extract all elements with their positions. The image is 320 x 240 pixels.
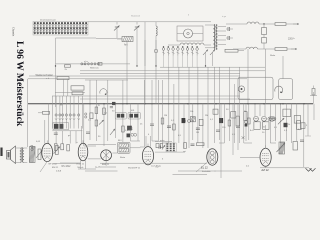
potentiometer P4: [55, 146, 58, 155]
resistor R2: [263, 24, 265, 28]
wire: [126, 40, 128, 104]
wire: [244, 142, 252, 144]
resistor R17: [263, 122, 269, 130]
wire: [259, 23, 275, 25]
wire: [144, 40, 146, 104]
resistor R6: [65, 65, 71, 67]
svg-text:Misch.: Misch.: [78, 167, 85, 169]
resistor R32: [54, 144, 57, 151]
wire: [173, 104, 175, 150]
wire: [259, 104, 261, 116]
wire: [239, 104, 241, 143]
wire: [279, 104, 281, 143]
wire: [80, 126, 82, 144]
wire: [168, 104, 170, 143]
wire: [264, 104, 266, 116]
capacitor C9 (padder): [129, 114, 133, 118]
wire: [307, 130, 309, 136]
resistor R10: [122, 126, 125, 132]
wire: [107, 80, 109, 104]
inductor L3 (oscillator coil): [180, 43, 204, 45]
wire: [228, 67, 230, 104]
resistor R28: [43, 111, 50, 114]
wire: [162, 104, 164, 143]
wire: [178, 67, 180, 104]
capacitor C17: [129, 127, 133, 129]
switch wafer S2: [162, 48, 165, 51]
tube V1 (EM11 tuning eye): [42, 143, 53, 161]
wire: [245, 104, 247, 141]
resistor R30: [72, 92, 83, 95]
tube V3 (EBF11): [101, 150, 112, 161]
resistor R20: [184, 143, 187, 149]
resistor R35: [236, 116, 239, 126]
resistor R5: [225, 49, 238, 52]
svg-text:EM 11: EM 11: [52, 167, 59, 169]
capacitor C14 (electrolytic): [270, 116, 275, 121]
wire: [265, 125, 267, 149]
wire: [233, 48, 246, 50]
pickup coil hook 2: [100, 89, 107, 95]
wire: [114, 104, 116, 138]
wire: [96, 38, 122, 40]
switch contact loops: [85, 113, 87, 115]
wire: [152, 140, 158, 142]
wire: [213, 67, 215, 104]
wire bus 8: [52, 95, 240, 97]
wire: [173, 174, 208, 176]
motor M2 (dial drive): [238, 86, 244, 92]
wire: [269, 104, 271, 143]
node junction: [103, 103, 104, 104]
switch S6 frame: [53, 123, 69, 130]
wire: [232, 104, 234, 155]
resistor R19: [294, 116, 300, 124]
capacitor C16: [86, 131, 90, 133]
wire: [151, 80, 153, 104]
svg-text:Drucktastensatz: Drucktastensatz: [40, 19, 56, 22]
capacitor C2 (trimmer): [136, 22, 138, 25]
wire: [88, 158, 101, 160]
inductor L6: [190, 117, 195, 122]
capacitor C1 (trimmer): [116, 22, 118, 25]
capacitor C29: [31, 145, 33, 147]
wire: [207, 67, 209, 104]
wire: [103, 104, 105, 146]
potentiometer P1: [99, 120, 104, 125]
svg-text:220V~: 220V~: [288, 38, 296, 41]
capacitor C5 (trimmer): [203, 50, 208, 56]
resistor R36: [244, 112, 247, 121]
transformer TR1 (mains): [214, 24, 216, 50]
wire bus 9: [80, 98, 250, 100]
capacitor C22: [300, 139, 304, 141]
capacitor C25: [110, 105, 113, 107]
inductor loop a: [183, 120, 186, 123]
wire bus 1: [56, 63, 131, 65]
resistor R26: [228, 120, 231, 126]
shield can 1: [238, 77, 273, 99]
wire: [0, 0, 320, 186]
resistor R15: [231, 112, 236, 118]
resistor R13: [213, 109, 218, 114]
svg-text:rg--01: rg--01: [95, 167, 101, 169]
wire: [155, 40, 157, 104]
wire: [173, 84, 175, 104]
wire: [89, 80, 91, 104]
tube V6 (AZ12 rectifier): [260, 148, 271, 166]
svg-text:0,3 A: 0,3 A: [56, 169, 62, 172]
wire: [265, 166, 267, 168]
wire: [163, 142, 169, 144]
wire: [239, 67, 241, 104]
inductor loop b: [188, 120, 191, 123]
wire: [62, 131, 64, 144]
svg-text:AZ 12: AZ 12: [261, 168, 269, 172]
capacitor C8 (padder): [117, 114, 120, 118]
wire: [178, 170, 242, 172]
wire: [107, 104, 109, 141]
wire: [140, 146, 144, 148]
node chassis mark: [0, 148, 2, 157]
resistor R22: [293, 142, 298, 151]
wire: [303, 104, 305, 167]
svg-text:Wid 05: Wid 05: [128, 168, 135, 170]
capacitor C11: [196, 127, 200, 129]
resistor R24: [161, 118, 164, 124]
svg-text:Skala: Skala: [270, 55, 276, 57]
wire: [48, 104, 50, 144]
capacitor C21: [54, 132, 58, 134]
capacitor C26 (on rail): [112, 102, 116, 105]
wire: [105, 161, 107, 166]
capacitor C33: [244, 120, 247, 123]
wire: [151, 104, 153, 141]
wire: [63, 79, 65, 96]
resistor R34: [67, 145, 70, 151]
wire: [188, 67, 190, 104]
svg-text:Chassis: Chassis: [12, 27, 16, 37]
capacitor C8b (padder): [121, 114, 125, 118]
wire: [247, 49, 249, 104]
wire: [234, 84, 236, 104]
capacitor C24 (dark): [59, 124, 63, 129]
svg-text:1M: 1M: [164, 115, 167, 117]
wire: [178, 104, 180, 143]
svg-text:NF 4312: NF 4312: [49, 164, 58, 166]
node junction: [136, 65, 137, 66]
wire: [144, 22, 146, 66]
wire: [95, 104, 97, 141]
wire: [84, 145, 96, 147]
inductor L5 (choke): [246, 47, 257, 49]
wire: [240, 156, 260, 158]
capacitor C15: [191, 143, 195, 145]
wire: [55, 79, 57, 107]
wire: [26, 79, 28, 147]
resistor R29: [71, 86, 84, 90]
capacitor C31: [272, 117, 276, 121]
resistor R4: [275, 48, 287, 51]
wire bus 6: [28, 78, 247, 80]
wire: [188, 104, 190, 148]
wire: [56, 37, 97, 39]
wire: [44, 120, 46, 144]
wire: [254, 104, 256, 116]
wire: [122, 80, 124, 104]
wire: [286, 104, 288, 141]
switch S4 box: [57, 77, 69, 80]
svg-text:Bf II: Bf II: [118, 140, 122, 142]
svg-text:Wellensch.: Wellensch.: [90, 67, 100, 69]
wire: [257, 48, 275, 50]
resistor R39: [156, 144, 159, 148]
wire: [88, 21, 211, 23]
transformer IFT3 (Bandfilter II): [118, 142, 131, 153]
resistor R8: [95, 107, 98, 114]
tube V2 (ECH11): [78, 143, 88, 160]
wire: [202, 104, 204, 148]
capacitor C4: [227, 36, 229, 40]
wire: [75, 131, 77, 144]
resistor R31: [98, 63, 102, 66]
wire: [218, 67, 220, 104]
wire: [85, 170, 118, 172]
potentiometer P3: [38, 149, 41, 160]
shield can 4: [128, 112, 140, 119]
switch contact x-mark: [242, 136, 245, 139]
node junction: [89, 103, 90, 104]
wire: [69, 131, 71, 144]
wire: [157, 104, 159, 141]
capacitor C27 (dark): [127, 126, 132, 131]
wire: [52, 130, 82, 132]
inductor L7 (field coil): [30, 147, 36, 163]
wire: [143, 80, 145, 104]
wire: [55, 91, 85, 93]
wire: [122, 104, 124, 142]
shield can 2: [279, 79, 293, 100]
wire: [197, 67, 199, 104]
svg-text:rot: rot: [183, 150, 186, 153]
wire: [183, 104, 185, 148]
wire: [219, 142, 224, 144]
wire: [207, 171, 209, 172]
wire: [307, 104, 309, 130]
svg-text:EL 12: EL 12: [201, 165, 208, 169]
inductor L2: [156, 26, 157, 36]
wire: [40, 162, 47, 172]
svg-text:L 96 W Meisterstück: L 96 W Meisterstück: [14, 41, 25, 127]
resistor R1: [275, 23, 286, 26]
resistor R3: [263, 35, 265, 38]
tube V4 (EF11): [142, 147, 153, 165]
capacitor C28: [158, 146, 160, 150]
capacitor C23 (dark): [54, 124, 59, 129]
wire: [213, 104, 215, 143]
resistor R7: [90, 113, 93, 119]
resistor R40: [160, 144, 163, 148]
resistor R11: [182, 118, 186, 123]
wire: [248, 104, 250, 140]
capacitor C9b (padder): [134, 114, 138, 118]
wire: [143, 104, 145, 147]
wire: [85, 79, 128, 81]
switch bank S1 (Drucktasten): [33, 22, 88, 36]
wire: [270, 142, 276, 144]
capacitor C6 (trimmer): [210, 50, 215, 56]
wire: [80, 160, 82, 169]
wire: [296, 104, 298, 141]
wire: [53, 151, 56, 153]
wire: [155, 141, 172, 143]
wire bus 3: [80, 70, 265, 72]
svg-text:EF 11: EF 11: [135, 167, 141, 169]
svg-text:Bf I: Bf I: [60, 105, 64, 107]
meter M1 (tuning indicator): [177, 26, 203, 41]
svg-text:Endstufe: Endstufe: [202, 170, 211, 173]
resistor R27: [248, 118, 251, 124]
pickup coil hook: [275, 86, 283, 93]
resistor R9: [103, 108, 106, 115]
resistor R12: [199, 119, 203, 125]
wire: [197, 104, 199, 143]
wire: [55, 38, 57, 79]
wire: [130, 104, 132, 141]
potentiometer P5 (Klang): [279, 142, 285, 154]
potentiometer P6: [162, 145, 165, 150]
svg-text:nach Skala: nach Skala: [151, 165, 162, 167]
svg-text:NS 4312: NS 4312: [62, 166, 72, 168]
wire: [220, 104, 222, 178]
wire: [243, 104, 245, 143]
wire: [100, 162, 205, 164]
capacitor C34 (dark): [127, 134, 131, 138]
potentiometer P1b: [110, 129, 115, 135]
wire net mains-b: [287, 48, 291, 50]
resistor R16: [254, 122, 260, 130]
wire: [234, 104, 236, 143]
capacitor C30: [268, 117, 272, 121]
inductor L4 (choke): [247, 22, 259, 24]
wire: [313, 104, 315, 120]
wire: [112, 152, 117, 154]
wire: [291, 104, 293, 143]
wire: [223, 104, 225, 143]
shield can 3: [115, 112, 126, 119]
capacitor C19: [216, 129, 220, 131]
svg-text:Ant: Ant: [124, 44, 128, 47]
capacitor C7: [82, 63, 86, 65]
resistor R18: [283, 109, 291, 117]
svg-text:a b c: a b c: [84, 61, 88, 63]
svg-text:Ratio: Ratio: [120, 156, 126, 159]
capacitor C3: [227, 27, 229, 31]
switch wafer S6 contacts: [51, 96, 53, 129]
wire: [147, 165, 149, 166]
wire: [218, 104, 220, 140]
wire: [60, 162, 80, 164]
node antenna socket: [154, 49, 158, 53]
wire bus 4: [80, 73, 240, 75]
tube V5 (EL12 output): [207, 149, 218, 165]
capacitor C13 (electrolytic): [262, 116, 267, 121]
wire: [130, 147, 140, 149]
wire: [55, 131, 57, 144]
resistor R25: [173, 124, 176, 130]
capacitor C18: [150, 123, 154, 125]
wire: [95, 80, 97, 104]
wire: [83, 104, 85, 146]
wire: [207, 104, 209, 148]
wire: [264, 49, 266, 104]
wire: [137, 104, 139, 141]
svg-text:Skalenseil: Skalenseil: [131, 16, 141, 18]
resistor R33: [61, 144, 64, 150]
resistor R23: [95, 120, 98, 126]
switch wafer S5: [167, 143, 169, 144]
wire: [282, 56, 284, 79]
transformer TR2 (output): [20, 147, 22, 162]
wire bus 2: [160, 66, 265, 68]
speaker LS: [11, 146, 16, 164]
wire net mains-a: [286, 23, 293, 25]
wire: [192, 104, 194, 140]
resistor R21: [197, 143, 205, 146]
wire: [228, 104, 230, 141]
potentiometer P2: [278, 118, 284, 124]
wire: [226, 23, 247, 25]
capacitor C20: [236, 125, 240, 127]
wire: [274, 104, 276, 141]
switch wafer S3: [81, 63, 83, 65]
wire: [162, 80, 164, 104]
inductor loop c: [131, 133, 134, 136]
resistor R38: [301, 123, 305, 129]
wire: [131, 140, 141, 142]
wire: [157, 80, 159, 104]
lamp LP1: [312, 89, 315, 96]
inductor L1 (antenna coil): [122, 37, 133, 42]
svg-text:1M: 1M: [196, 132, 199, 134]
ground chassis: [306, 168, 312, 171]
wire: [168, 67, 170, 104]
wire: [205, 162, 207, 164]
capacitor C12 (electrolytic): [254, 116, 259, 121]
capacitor C32 (dark): [284, 123, 288, 127]
resistor R37: [297, 121, 301, 130]
wire: [89, 104, 91, 140]
wire bus 7 (HT rail): [28, 103, 313, 105]
resistor R14: [219, 118, 223, 123]
node antenna tee: [310, 95, 317, 97]
svg-text:2M: 2M: [205, 115, 208, 117]
wire bus 5: [29, 75, 240, 77]
capacitor C10: [167, 125, 171, 127]
